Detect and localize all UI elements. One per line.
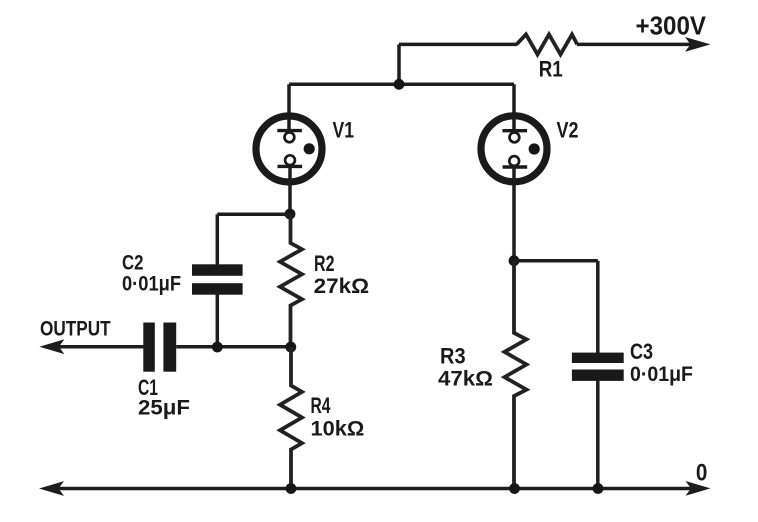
svg-text:+300V: +300V xyxy=(636,10,707,40)
wire anode bus V1 to V2 xyxy=(289,83,514,87)
label OUTPUT xyxy=(40,317,111,340)
arrowhead ground rail right xyxy=(686,481,711,496)
resistor R3 xyxy=(505,261,527,489)
arrowhead output line xyxy=(39,339,64,354)
label 47kOhm for R3 xyxy=(438,367,493,390)
svg-text:0: 0 xyxy=(696,459,708,486)
label 27kOhm for R2 xyxy=(314,275,369,298)
label R3 xyxy=(440,343,466,368)
wire output line left of C1 xyxy=(48,345,144,349)
arrowhead ground rail left xyxy=(39,481,64,496)
svg-text:R1: R1 xyxy=(539,57,563,82)
capacitor C1 xyxy=(143,323,176,372)
label R1 xyxy=(539,57,563,82)
wire C3 top lead xyxy=(596,261,600,354)
svg-text:25μF: 25μF xyxy=(138,396,190,419)
node R2 R4 junction on output line xyxy=(285,342,296,353)
resistor R1 xyxy=(517,34,578,54)
label C2 xyxy=(122,251,144,274)
svg-text:10kΩ: 10kΩ xyxy=(311,417,365,440)
wire C2 bottom lead xyxy=(216,294,220,348)
node V2 cathode junction xyxy=(509,255,520,266)
svg-text:0·01μF: 0·01μF xyxy=(630,363,693,386)
resistor R2 xyxy=(280,214,302,347)
svg-text:V1: V1 xyxy=(333,117,355,142)
capacitor C2 xyxy=(192,264,243,294)
node C2 branch on output line xyxy=(212,342,223,353)
label +300V xyxy=(636,10,707,40)
wire V1 cathode lead xyxy=(288,166,292,214)
node R3 on ground rail xyxy=(509,483,520,494)
wire V1 top lead xyxy=(287,84,291,134)
label 0 ground xyxy=(696,459,708,486)
label V2 xyxy=(557,117,579,142)
svg-text:V2: V2 xyxy=(557,117,579,142)
svg-text:R3: R3 xyxy=(440,343,466,368)
label R4 xyxy=(311,393,332,418)
svg-text:47kΩ: 47kΩ xyxy=(438,367,493,390)
svg-text:0·01μF: 0·01μF xyxy=(122,272,181,295)
svg-text:OUTPUT: OUTPUT xyxy=(40,317,111,340)
node junction top rail xyxy=(394,79,405,90)
wire top +300V rail left segment xyxy=(399,43,517,47)
wire cathode junction to C3 branch xyxy=(514,259,598,263)
label C3 xyxy=(630,339,653,364)
node R4 on ground rail xyxy=(286,483,297,494)
label 10kOhm for R4 xyxy=(311,417,365,440)
wire ground rail xyxy=(46,487,704,491)
tube V1 xyxy=(256,116,322,182)
arrowhead +300V supply xyxy=(685,37,711,52)
svg-text:C3: C3 xyxy=(630,339,653,364)
svg-text:R2: R2 xyxy=(314,251,335,276)
wire C3 bottom lead xyxy=(596,380,600,489)
wire output line right of C1 xyxy=(176,345,291,349)
label 25uF for C1 xyxy=(138,396,190,419)
capacitor C3 xyxy=(572,353,624,381)
node C3 on ground rail xyxy=(593,483,604,494)
svg-text:C2: C2 xyxy=(122,251,144,274)
label C1 xyxy=(138,375,158,400)
wire V2 top lead xyxy=(512,84,516,134)
wire riser from junction to top rail xyxy=(397,44,401,84)
label 0.01uF for C2 xyxy=(122,272,181,295)
svg-text:R4: R4 xyxy=(311,393,332,418)
label R2 xyxy=(314,251,335,276)
label V1 xyxy=(333,117,355,142)
wire V2 cathode lead xyxy=(512,167,516,261)
wire top +300V rail right segment xyxy=(577,43,692,47)
wire cathode junction to C2 branch xyxy=(217,213,290,217)
resistor R4 xyxy=(280,347,302,489)
tube V2 xyxy=(481,116,547,182)
node V1 cathode junction xyxy=(285,209,296,220)
label 0.01uF for C3 xyxy=(630,363,693,386)
wire C2 top lead xyxy=(216,214,220,265)
svg-text:27kΩ: 27kΩ xyxy=(314,275,369,298)
